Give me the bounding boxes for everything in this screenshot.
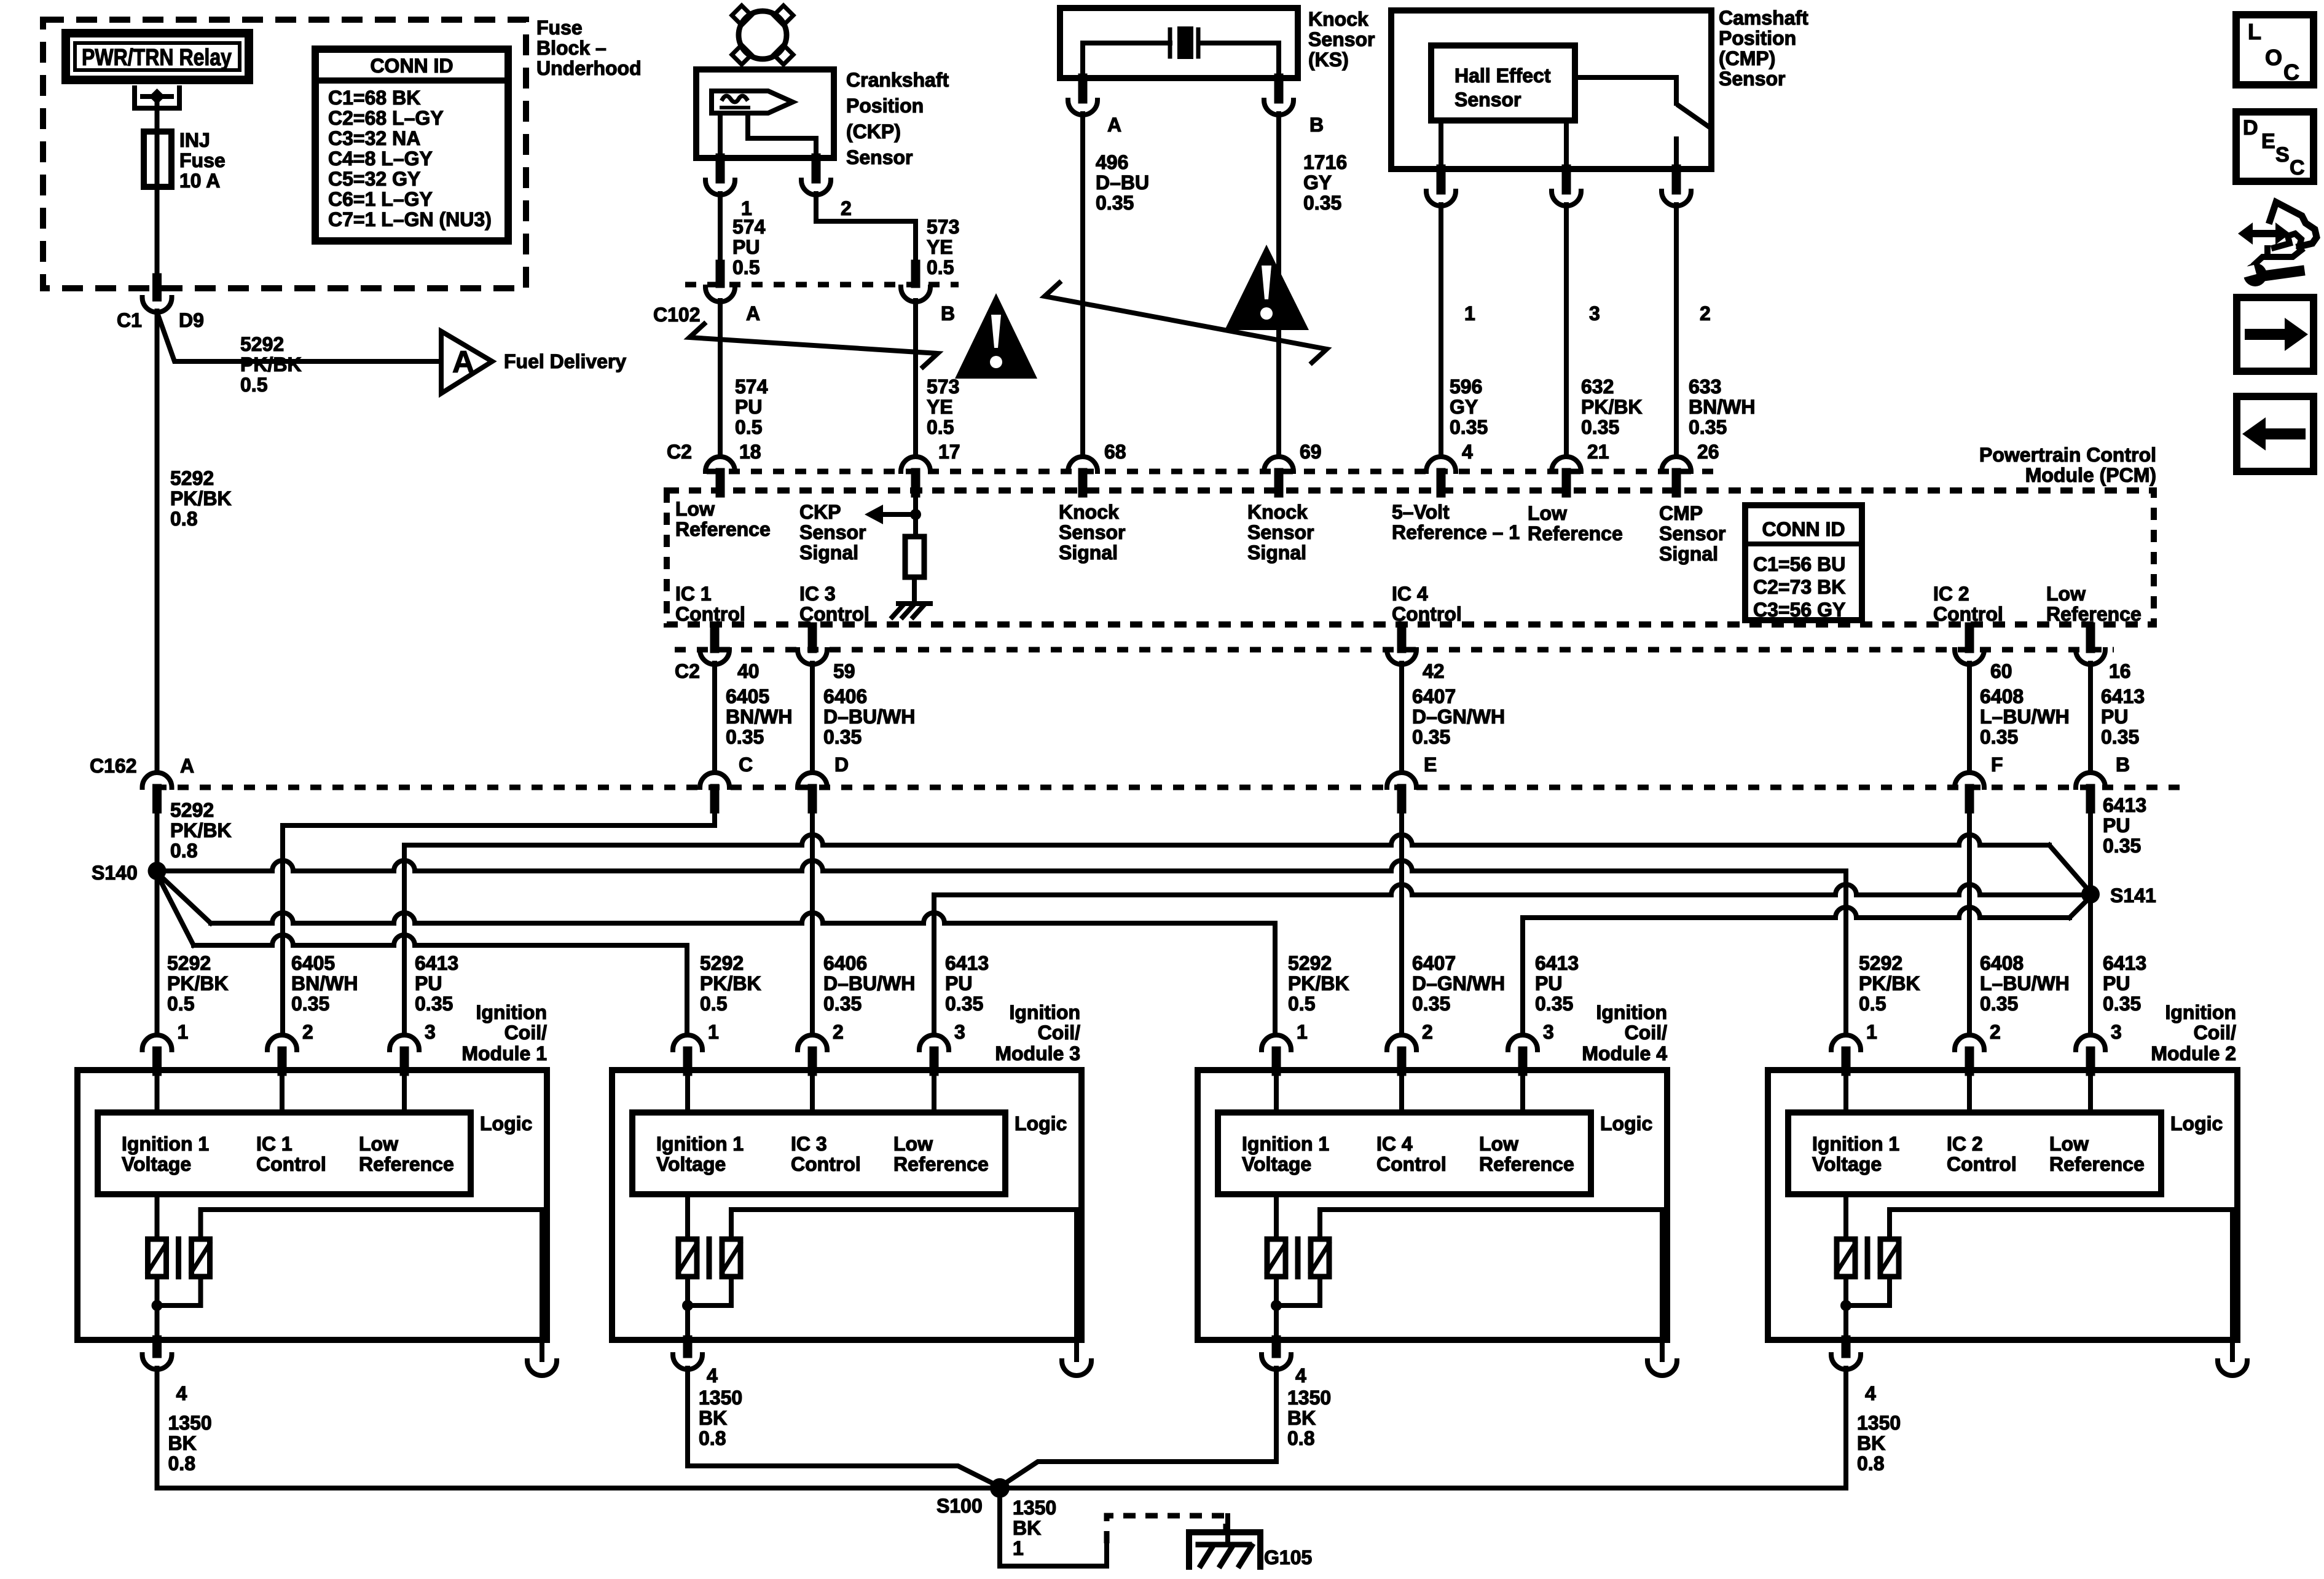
wire 6413 bus to module 3 pin 3 — [932, 896, 936, 1035]
svg-text:PK/BK: PK/BK — [700, 972, 761, 994]
svg-text:Control: Control — [1933, 603, 2003, 625]
svg-text:IC 4: IC 4 — [1392, 583, 1428, 605]
wire 1350 BK module 2 pin 4 ground lead — [1843, 1368, 1848, 1488]
svg-text:Logic: Logic — [2170, 1112, 2223, 1135]
svg-text:Ignition: Ignition — [2165, 1001, 2236, 1023]
resistor R (CKP bias) inside PCM — [905, 537, 924, 577]
footnote slash (KS circuit) — [1045, 283, 1327, 363]
svg-text:0.35: 0.35 — [945, 993, 983, 1015]
svg-text:0.5: 0.5 — [1288, 993, 1315, 1015]
svg-text:Coil/: Coil/ — [504, 1022, 547, 1044]
svg-text:D9: D9 — [179, 309, 204, 331]
hall effect sensor box — [1431, 45, 1575, 120]
svg-text:0.35: 0.35 — [1581, 416, 1619, 438]
sidebar DESC box — [2236, 112, 2314, 181]
wire 6408 L-BU/WH PCM 60 to C162 F — [1967, 663, 1972, 773]
wire 6406 C162 D to module3 pin 2 — [810, 809, 815, 1035]
svg-text:IC 4: IC 4 — [1376, 1133, 1413, 1155]
splice S140 — [148, 862, 167, 880]
CMP switch symbol — [1575, 75, 1676, 80]
wire 6413 bus to module 4 pin 3 — [1520, 918, 1525, 1035]
svg-text:5292: 5292 — [1288, 952, 1332, 974]
svg-text:PK/BK: PK/BK — [170, 487, 232, 510]
module 4 secondary output wire — [1320, 1210, 1662, 1340]
svg-text:Fuse: Fuse — [179, 149, 226, 171]
svg-text:596: 596 — [1450, 376, 1482, 398]
svg-text:PK/BK: PK/BK — [1288, 972, 1349, 994]
fuse F INJ Fuse 10 A — [144, 132, 171, 187]
module 4 pin 4 connector — [1272, 1340, 1281, 1353]
svg-text:0.8: 0.8 — [168, 1452, 195, 1475]
CKP sensor mounting bolt symbol — [739, 11, 787, 59]
svg-text:0.5: 0.5 — [700, 993, 727, 1015]
CKP pin 2 connector — [812, 158, 821, 179]
svg-text:Voltage: Voltage — [122, 1153, 191, 1175]
svg-text:CMP: CMP — [1659, 502, 1703, 524]
svg-text:Module 3: Module 3 — [995, 1042, 1080, 1065]
svg-text:D–BU: D–BU — [1096, 171, 1149, 194]
svg-text:Voltage: Voltage — [1242, 1153, 1311, 1175]
svg-text:Sensor: Sensor — [799, 521, 866, 543]
module 2 pin 1 connector — [1831, 1035, 1861, 1050]
svg-text:Control: Control — [799, 603, 870, 625]
svg-text:4: 4 — [1865, 1382, 1876, 1404]
wire fuse to C1 — [155, 187, 160, 278]
svg-text:IC 3: IC 3 — [799, 583, 836, 605]
svg-text:E: E — [2261, 130, 2275, 153]
svg-text:Control: Control — [1376, 1153, 1447, 1175]
PCM pin 69 connector — [1264, 457, 1294, 471]
svg-text:Reference: Reference — [2049, 1153, 2145, 1175]
wire 496 D-BU KS A to PCM 68 — [1080, 114, 1085, 457]
svg-text:Reference: Reference — [893, 1153, 989, 1175]
module 3 pin 3 internal wire — [932, 1070, 936, 1112]
wire 1350 BK module1/module2 ground bus — [157, 1486, 1847, 1490]
svg-text:Sensor: Sensor — [1454, 89, 1521, 111]
PCM pin 21 connector — [1552, 457, 1581, 471]
module 3 pin 4 connector — [683, 1340, 693, 1353]
svg-text:PU: PU — [732, 236, 760, 258]
module 4 pin 3 internal wire — [1520, 1070, 1525, 1112]
svg-text:Signal: Signal — [1659, 543, 1718, 565]
module 4 ignition coil primary winding — [1274, 1194, 1279, 1239]
svg-text:0.5: 0.5 — [167, 993, 194, 1015]
connector C102 row — [685, 282, 959, 288]
module 3 coil-low junction — [685, 1277, 690, 1340]
svg-text:B: B — [941, 302, 955, 325]
svg-text:PU: PU — [415, 972, 442, 994]
C162 pin D connector — [798, 773, 827, 787]
module 3 pin 2 connector — [798, 1035, 827, 1050]
svg-text:10 A: 10 A — [179, 170, 220, 192]
CKP sensor pickup icon — [712, 91, 793, 113]
svg-text:17: 17 — [938, 441, 960, 463]
svg-text:0.35: 0.35 — [726, 726, 764, 748]
svg-text:Reference: Reference — [359, 1153, 454, 1175]
svg-text:6413: 6413 — [1535, 952, 1579, 974]
svg-text:Control: Control — [256, 1153, 326, 1175]
svg-text:Control: Control — [1947, 1153, 2017, 1175]
svg-text:PU: PU — [2101, 706, 2128, 728]
svg-text:IC 1: IC 1 — [675, 583, 712, 605]
wire 1716 GY KS B to PCM 69 — [1276, 114, 1281, 457]
svg-text:L: L — [2248, 19, 2261, 44]
svg-text:PWR/TRN Relay: PWR/TRN Relay — [82, 45, 232, 71]
PCM pin 59 connector — [808, 627, 817, 648]
svg-text:Low: Low — [1528, 502, 1567, 524]
svg-text:Module 2: Module 2 — [2151, 1042, 2236, 1065]
svg-text:6405: 6405 — [726, 685, 769, 707]
caution note triangle 1 — [955, 293, 1037, 379]
conn id table (PCM) — [1745, 505, 1862, 620]
PCM pin 60 connector — [1965, 627, 1974, 648]
svg-text:PU: PU — [2103, 814, 2130, 837]
svg-text:0.8: 0.8 — [699, 1427, 726, 1449]
wire 596 GY CMP 1 to PCM 4 — [1439, 205, 1443, 457]
splice S141 — [2081, 885, 2100, 904]
svg-text:5–Volt: 5–Volt — [1392, 501, 1450, 523]
svg-text:6408: 6408 — [1980, 952, 2024, 974]
relay K PWR/TRN Relay label box — [66, 33, 249, 80]
sidebar wrench/arrows icon — [2251, 230, 2278, 237]
svg-text:60: 60 — [1990, 660, 2012, 682]
svg-text:CKP: CKP — [799, 501, 841, 523]
svg-text:5292: 5292 — [1859, 952, 1902, 974]
KS crystal element — [1083, 41, 1170, 45]
svg-text:Camshaft: Camshaft — [1719, 7, 1808, 29]
wire 632 PK/BK CMP 3 to PCM 21 — [1564, 205, 1569, 457]
svg-text:1350: 1350 — [1013, 1497, 1056, 1519]
module 1 coil-low junction — [155, 1277, 160, 1340]
svg-text:GY: GY — [1450, 396, 1478, 418]
wire 1350 BK module3 ground lead — [688, 1466, 1000, 1487]
svg-text:D: D — [2243, 116, 2258, 140]
svg-text:16: 16 — [2109, 660, 2131, 682]
svg-text:Voltage: Voltage — [656, 1153, 726, 1175]
svg-text:Fuel Delivery: Fuel Delivery — [504, 350, 626, 372]
svg-text:BN/WH: BN/WH — [291, 972, 358, 994]
svg-text:6413: 6413 — [945, 952, 989, 974]
svg-text:2: 2 — [841, 197, 852, 219]
camshaft position CMP sensor box — [1391, 10, 1711, 169]
PCM pin 26 connector — [1662, 457, 1691, 471]
svg-text:18: 18 — [739, 441, 761, 463]
module 3 logic box — [632, 1112, 1005, 1194]
wire 5292 PK/BK from C1 down to C162 pin A — [155, 311, 160, 773]
module 2 pin 2 internal wire — [1967, 1070, 1972, 1112]
svg-text:6413: 6413 — [2103, 794, 2146, 816]
svg-text:Voltage: Voltage — [1812, 1153, 1882, 1175]
svg-text:0.5: 0.5 — [1859, 993, 1886, 1015]
svg-text:A: A — [1107, 114, 1121, 136]
svg-text:C2: C2 — [667, 441, 692, 463]
module 3 secondary output wire — [731, 1210, 1077, 1340]
caution note triangle 2 — [1225, 245, 1309, 330]
svg-text:Logic: Logic — [480, 1112, 532, 1135]
svg-text:IC 2: IC 2 — [1933, 583, 1969, 605]
svg-text:BK: BK — [1013, 1517, 1041, 1539]
PCM pin 40 connector — [710, 627, 720, 648]
svg-text:IC 3: IC 3 — [791, 1133, 827, 1155]
ignition coil/module 4 box — [1198, 1070, 1667, 1340]
svg-text:1716: 1716 — [1303, 151, 1347, 173]
svg-text:L–BU/WH: L–BU/WH — [1980, 706, 2070, 728]
wire 633 BN/WH CMP 2 to PCM 26 — [1674, 205, 1679, 457]
sidebar LOC box — [2236, 15, 2314, 85]
svg-text:1: 1 — [1013, 1537, 1024, 1559]
module 2 pin 3 internal wire — [2088, 1070, 2093, 1112]
splice S100 — [990, 1478, 1010, 1498]
CKP pin 1 connector — [716, 158, 725, 179]
wire 6407 D-GN/WH PCM 42 to C162 E — [1399, 663, 1404, 773]
svg-text:Coil/: Coil/ — [1038, 1022, 1080, 1044]
svg-text:Module 1: Module 1 — [461, 1042, 547, 1065]
svg-text:2: 2 — [1990, 1021, 2001, 1043]
svg-text:PK/BK: PK/BK — [170, 819, 232, 841]
svg-text:(CMP): (CMP) — [1719, 47, 1775, 69]
svg-text:PU: PU — [735, 396, 762, 418]
CMP pin 3 connector — [1562, 169, 1571, 190]
svg-text:B: B — [2116, 754, 2130, 776]
svg-text:Signal: Signal — [1059, 541, 1118, 564]
svg-text:YE: YE — [927, 396, 953, 418]
powertrain control module PCM dashed box — [667, 490, 2154, 624]
module 2 pin 1 internal wire — [1843, 1070, 1848, 1112]
relay contact symbol — [135, 88, 179, 108]
svg-text:42: 42 — [1423, 660, 1445, 682]
svg-text:O: O — [2265, 45, 2282, 70]
PCM pin 68 connector — [1068, 457, 1097, 471]
module 4 pin 1 connector — [1262, 1035, 1291, 1050]
svg-text:0.35: 0.35 — [2101, 726, 2139, 748]
svg-text:69: 69 — [1300, 441, 1322, 463]
module 1 pin 1 internal wire — [155, 1070, 160, 1112]
svg-text:A: A — [452, 345, 474, 379]
svg-text:574: 574 — [735, 376, 768, 398]
module 2 ignition coil primary winding — [1843, 1194, 1848, 1239]
module 2 ignition coil secondary winding — [1880, 1239, 1899, 1277]
module 1 ignition coil secondary winding — [192, 1239, 210, 1277]
svg-text:0.5: 0.5 — [735, 416, 762, 438]
module 2 pin 2 connector — [1955, 1035, 1984, 1050]
wire 6408 C162 F to module2 pin 2 — [1967, 809, 1972, 1035]
svg-text:1: 1 — [178, 1021, 189, 1043]
svg-text:Crankshaft: Crankshaft — [846, 69, 949, 91]
svg-text:0.35: 0.35 — [1412, 726, 1450, 748]
svg-text:Low: Low — [675, 498, 715, 520]
svg-text:Sensor: Sensor — [1308, 28, 1375, 50]
svg-text:PU: PU — [2103, 972, 2130, 994]
svg-text:68: 68 — [1104, 441, 1126, 463]
svg-text:Low: Low — [2049, 1133, 2089, 1155]
ignition coil/module 3 box — [612, 1070, 1082, 1340]
svg-text:4: 4 — [707, 1364, 718, 1387]
svg-text:C: C — [2283, 60, 2299, 85]
wire 5292 C162 A to S140 and module 1 pin 1 — [155, 809, 160, 1035]
wire 6413 PU PCM 16 to C162 B — [2088, 663, 2093, 773]
wire 1350 BK S100 to G105 — [1000, 1488, 1107, 1566]
svg-text:496: 496 — [1096, 151, 1128, 173]
svg-text:Coil/: Coil/ — [2194, 1022, 2236, 1044]
module 1 pin 3 internal wire — [402, 1070, 407, 1112]
wire 574 PU CKP pin1 to C102 A — [718, 194, 723, 264]
svg-text:BN/WH: BN/WH — [1689, 396, 1755, 418]
svg-text:YE: YE — [927, 236, 953, 258]
svg-text:0.5: 0.5 — [732, 256, 760, 278]
svg-text:1: 1 — [708, 1021, 719, 1043]
connector C1 pin D9 — [152, 278, 162, 297]
svg-text:Knock: Knock — [1059, 501, 1119, 523]
svg-text:PU: PU — [945, 972, 972, 994]
svg-text:Control: Control — [791, 1153, 861, 1175]
svg-text:Signal: Signal — [799, 541, 858, 564]
ignition coil/module 2 box — [1768, 1070, 2237, 1340]
svg-text:BK: BK — [168, 1432, 197, 1454]
svg-text:F: F — [1991, 754, 2003, 776]
svg-text:0.8: 0.8 — [1857, 1452, 1884, 1475]
svg-text:5292: 5292 — [700, 952, 744, 974]
C102 pin B — [911, 264, 921, 283]
sidebar forward arrow box — [2237, 297, 2314, 371]
svg-text:INJ: INJ — [179, 129, 210, 151]
wire branch to fuel delivery arrow — [158, 315, 441, 361]
module 1 ignition coil primary winding — [155, 1194, 160, 1239]
svg-text:PK/BK: PK/BK — [1859, 972, 1920, 994]
svg-text:Position: Position — [846, 95, 924, 117]
svg-text:Reference: Reference — [2046, 603, 2141, 625]
svg-text:Reference: Reference — [1528, 522, 1623, 545]
svg-text:D–GN/WH: D–GN/WH — [1412, 972, 1505, 994]
module 4 logic box — [1218, 1112, 1591, 1194]
svg-text:573: 573 — [927, 376, 959, 398]
PCM pin 4 connector — [1426, 457, 1456, 471]
svg-text:S: S — [2275, 143, 2290, 167]
svg-text:Control: Control — [1392, 603, 1462, 625]
wire 574 PU C102 to PCM 18 — [718, 301, 723, 457]
svg-text:2: 2 — [833, 1021, 844, 1043]
svg-text:6406: 6406 — [823, 952, 867, 974]
module 2 logic box — [1788, 1112, 2161, 1194]
svg-text:C162: C162 — [90, 755, 137, 777]
svg-text:S141: S141 — [2110, 884, 2156, 907]
connector C162 row — [155, 785, 2185, 790]
svg-text:0.35: 0.35 — [1535, 993, 1573, 1015]
svg-text:D–GN/WH: D–GN/WH — [1412, 706, 1505, 728]
module 2 pin 3 connector — [2076, 1035, 2105, 1050]
KS pin B connector — [1274, 78, 1284, 99]
module 1 pin 4 connector — [152, 1340, 162, 1353]
module 4 pin 2 internal wire — [1399, 1070, 1404, 1112]
svg-text:6413: 6413 — [2101, 685, 2145, 707]
svg-text:1: 1 — [1297, 1021, 1308, 1043]
svg-text:59: 59 — [833, 660, 855, 682]
module 3 pin 3 connector — [919, 1035, 949, 1050]
svg-text:6406: 6406 — [823, 685, 867, 707]
svg-text:5292: 5292 — [240, 333, 284, 355]
svg-text:1350: 1350 — [699, 1387, 742, 1409]
ground (PCM internal) — [898, 601, 930, 606]
C162 pin C connector — [700, 773, 729, 787]
svg-text:0.35: 0.35 — [1096, 192, 1134, 214]
svg-text:C: C — [2290, 156, 2305, 179]
module 2 pin 4 connector — [1842, 1340, 1851, 1353]
svg-text:0.35: 0.35 — [415, 993, 453, 1015]
svg-text:4: 4 — [176, 1382, 187, 1404]
svg-text:2: 2 — [302, 1021, 313, 1043]
C162 pin E connector — [1387, 773, 1416, 787]
svg-text:D–BU/WH: D–BU/WH — [823, 706, 915, 728]
C162 pin F connector — [1955, 773, 1984, 787]
wire 573 YE CKP pin2 to C102 B — [816, 194, 916, 264]
svg-text:Sensor: Sensor — [1659, 522, 1725, 545]
svg-text:0.5: 0.5 — [927, 416, 954, 438]
svg-text:Ignition: Ignition — [1009, 1001, 1080, 1023]
svg-text:6407: 6407 — [1412, 952, 1456, 974]
svg-text:Signal: Signal — [1247, 541, 1306, 564]
svg-text:IC 2: IC 2 — [1947, 1133, 1983, 1155]
svg-text:Position: Position — [1719, 27, 1796, 49]
wire 5292 bus S140 to module 3 pin 1 — [159, 877, 194, 945]
module 1 pin 2 internal wire — [280, 1070, 285, 1112]
svg-text:Reference: Reference — [675, 518, 771, 540]
svg-text:Low: Low — [359, 1133, 398, 1155]
module 4 ignition coil secondary winding — [1311, 1239, 1329, 1277]
module 1 logic box — [98, 1112, 471, 1194]
svg-text:Reference – 1: Reference – 1 — [1392, 521, 1520, 543]
ignition coil/module 1 box — [77, 1070, 547, 1340]
svg-text:3: 3 — [425, 1021, 436, 1043]
svg-text:0.8: 0.8 — [170, 840, 197, 862]
svg-text:0.5: 0.5 — [927, 256, 954, 278]
svg-text:BK: BK — [1857, 1432, 1885, 1454]
svg-text:6407: 6407 — [1412, 685, 1456, 707]
module 3 ignition coil primary winding — [685, 1194, 690, 1239]
svg-text:0.35: 0.35 — [1689, 416, 1727, 438]
svg-text:L–BU/WH: L–BU/WH — [1980, 972, 2070, 994]
svg-text:4: 4 — [1295, 1364, 1306, 1387]
wire 5292 bus S140 to module 2 pin 1 — [157, 860, 1847, 871]
svg-text:0.35: 0.35 — [823, 726, 862, 748]
wire 6405 C162 C to module1 pin 2 — [283, 809, 715, 1035]
svg-text:Reference: Reference — [1479, 1153, 1574, 1175]
svg-text:C7=1 L–GN (NU3): C7=1 L–GN (NU3) — [328, 208, 492, 230]
wire 1350 BK module4 ground lead — [1000, 1462, 1276, 1487]
svg-text:2: 2 — [1700, 302, 1711, 325]
wire 1350 BK module 3 pin 4 ground lead — [685, 1368, 690, 1466]
svg-text:4: 4 — [1462, 441, 1473, 463]
svg-text:C102: C102 — [653, 304, 701, 326]
module 3 pin 1 internal wire — [685, 1070, 690, 1112]
wire 6413 bus to module 1 pin 3 — [402, 845, 407, 1035]
module 2 coil core — [1865, 1239, 1871, 1277]
svg-text:6405: 6405 — [291, 952, 335, 974]
svg-text:PK/BK: PK/BK — [240, 353, 302, 376]
svg-text:1350: 1350 — [168, 1412, 212, 1434]
ground G105 — [1225, 1516, 1230, 1545]
svg-text:CONN ID: CONN ID — [1762, 518, 1845, 540]
module 3 pin 1 connector — [673, 1035, 702, 1050]
module 4 pin 2 connector — [1387, 1035, 1416, 1050]
svg-text:0.35: 0.35 — [1980, 726, 2018, 748]
conn id table (fuse block) — [315, 49, 508, 241]
svg-text:6413: 6413 — [2103, 952, 2146, 974]
module 1 pin 3 connector — [390, 1035, 419, 1050]
svg-text:(CKP): (CKP) — [846, 120, 901, 143]
svg-text:BK: BK — [699, 1407, 727, 1429]
module 4 pin 1 internal wire — [1274, 1070, 1279, 1112]
svg-text:C1=56 BU: C1=56 BU — [1753, 553, 1845, 575]
module 2 secondary output wire — [1890, 1210, 2232, 1340]
